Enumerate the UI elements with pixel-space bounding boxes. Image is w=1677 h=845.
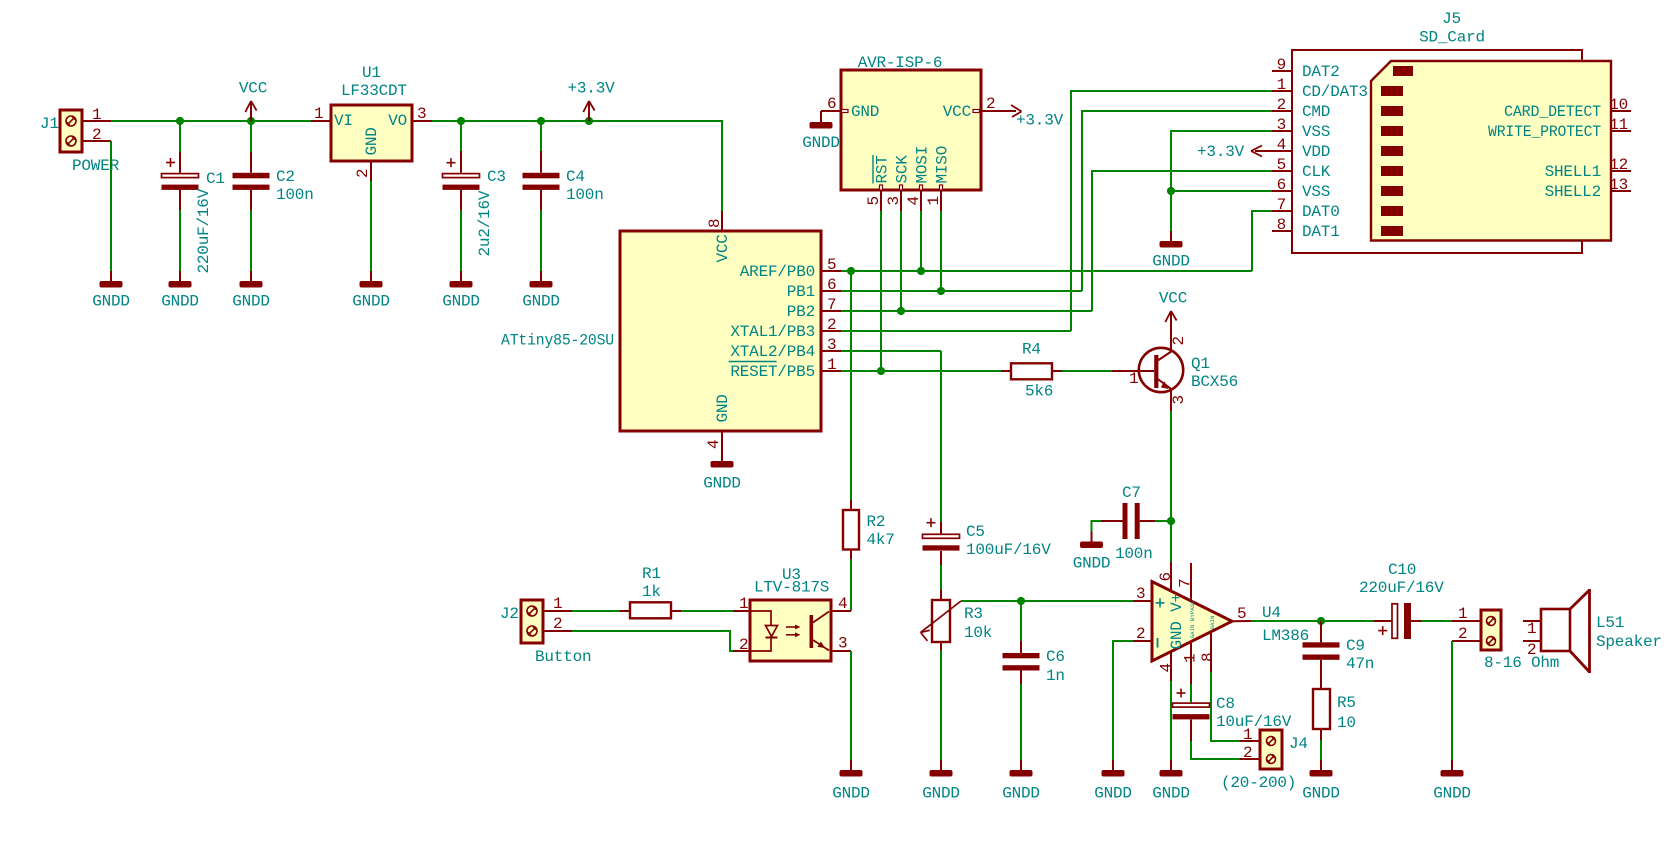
pin 2 XTAL1/PB3 of ATtiny: [730, 316, 841, 341]
svg-text:CMD: CMD: [1302, 103, 1330, 121]
svg-text:XTAL1/PB3: XTAL1/PB3: [730, 323, 815, 341]
wire U1 GND to ground: [370, 181, 372, 271]
svg-text:GND: GND: [363, 127, 381, 155]
svg-text:2: 2: [1458, 625, 1467, 643]
svg-text:GND: GND: [714, 394, 732, 422]
svg-text:GNDD: GNDD: [1073, 555, 1111, 573]
ground GNDD at U3: [832, 760, 870, 803]
svg-text:GNDD: GNDD: [232, 293, 270, 311]
svg-text:GNDD: GNDD: [802, 134, 840, 152]
ground GNDD at U4 pin4: [1152, 760, 1190, 803]
svg-text:7: 7: [1177, 579, 1195, 588]
svg-text:DAT2: DAT2: [1302, 63, 1340, 81]
svg-text:J5: J5: [1442, 10, 1461, 28]
pin 2 of J1: [82, 126, 111, 144]
MCU U2 ATtiny85-20SU: [501, 231, 821, 431]
capacitor C1 220uF/16V: [162, 121, 225, 274]
svg-text:GAIN BYPASS: GAIN BYPASS: [1189, 600, 1196, 639]
pin 1 CD/DAT3 of SD card: [1272, 76, 1368, 101]
junction output/C9: [1317, 617, 1325, 625]
pin 7 DAT0 of SD card: [1272, 196, 1340, 221]
svg-text:2: 2: [986, 95, 995, 113]
svg-text:1: 1: [739, 595, 748, 613]
svg-text:R2: R2: [867, 513, 886, 531]
svg-text:CARD_DETECT: CARD_DETECT: [1504, 103, 1601, 121]
wire SD VSS pin3 to ground: [1171, 131, 1272, 191]
svg-text:AVR-ISP-6: AVR-ISP-6: [858, 54, 943, 72]
pin 3 of U3: [831, 635, 851, 653]
svg-text:1: 1: [1277, 76, 1286, 94]
svg-text:3: 3: [827, 336, 836, 354]
junction +3.3V rail at +3.3V symbol: [585, 117, 593, 125]
svg-text:SHELL2: SHELL2: [1545, 183, 1601, 201]
svg-text:100n: 100n: [276, 186, 314, 204]
svg-text:2: 2: [739, 636, 748, 654]
svg-text:2: 2: [1243, 744, 1252, 762]
capacitor C10 220uF/16V: [1359, 561, 1444, 639]
pin 2 CMD of SD card: [1272, 96, 1330, 121]
svg-text:R1: R1: [642, 565, 661, 583]
wire C10 to speaker connector: [1421, 620, 1452, 622]
svg-text:LF33CDT: LF33CDT: [341, 82, 407, 100]
svg-text:RST: RST: [874, 155, 892, 183]
svg-text:Speaker: Speaker: [1596, 633, 1662, 651]
wire C4 to ground: [540, 210, 542, 271]
ground GNDD at ATtiny: [703, 451, 741, 493]
wire C2 to ground: [250, 210, 252, 271]
junction PB1/MISO: [937, 287, 945, 295]
svg-text:VSS: VSS: [1302, 123, 1330, 141]
pin 6 GND of ISP: [821, 95, 879, 121]
op-amp U4 LM386: [1152, 582, 1309, 662]
wire R5 to ground: [1320, 740, 1322, 760]
svg-text:PB1: PB1: [787, 283, 815, 301]
svg-text:L51: L51: [1596, 614, 1624, 632]
power symbol VCC: [239, 80, 267, 122]
svg-text:VO: VO: [388, 112, 407, 130]
svg-text:GND: GND: [851, 103, 879, 121]
junction PB2/SCK: [897, 307, 905, 315]
svg-text:GNDD: GNDD: [1433, 785, 1471, 803]
pin 5 output of U4: [1232, 605, 1251, 623]
pin 4 GND of ATtiny: [705, 431, 723, 451]
svg-text:+3.3V: +3.3V: [567, 80, 615, 98]
junction at C6: [1017, 597, 1025, 605]
wire R4 to Q1 base: [1062, 370, 1112, 372]
svg-text:POWER: POWER: [72, 157, 120, 175]
wire Q1 emitter to amp V+: [1170, 411, 1172, 521]
junction VCC rail at C1: [176, 117, 184, 125]
svg-text:MOSI: MOSI: [914, 146, 932, 184]
ground GNDD at C2: [232, 271, 270, 311]
label POWER: [72, 157, 120, 175]
pin 4 VDD of SD card: [1272, 136, 1330, 161]
svg-text:Q1: Q1: [1191, 355, 1210, 373]
svg-text:2: 2: [354, 169, 372, 178]
junction VSS: [1167, 187, 1175, 195]
capacitor C9 47n: [1303, 621, 1375, 689]
svg-text:MISO: MISO: [934, 146, 952, 184]
svg-text:VSS: VSS: [1302, 183, 1330, 201]
svg-text:1: 1: [1243, 726, 1252, 744]
connector J1 POWER: [60, 110, 82, 152]
svg-text:DAT0: DAT0: [1302, 203, 1340, 221]
svg-text:C1: C1: [206, 170, 225, 188]
pin 1 RESET/PB5 of ATtiny: [729, 356, 841, 381]
wire PB0 net: [841, 270, 1252, 272]
svg-text:6: 6: [827, 95, 836, 113]
svg-text:VI: VI: [334, 112, 353, 130]
wire XTAL1/PB3 to SD CD/DAT3: [1071, 91, 1272, 331]
svg-text:4: 4: [705, 440, 723, 449]
svg-text:R5: R5: [1337, 694, 1356, 712]
pin 3 SCK of ISP: [885, 155, 912, 211]
pin 10 CARD_DETECT of SD card: [1504, 96, 1631, 121]
optocoupler U3 LTV-817S: [750, 566, 831, 661]
wire VCC rail J1 to U1: [111, 120, 311, 122]
svg-text:100n: 100n: [566, 186, 604, 204]
svg-text:3: 3: [1277, 116, 1286, 134]
wire R3 to ground: [940, 650, 942, 760]
svg-text:4: 4: [1158, 663, 1176, 672]
resistor R5 10: [1313, 689, 1356, 740]
pin 7 BYPASS of U4: [1177, 563, 1195, 602]
pin 2 of J3: [1452, 625, 1481, 643]
svg-text:7: 7: [1277, 196, 1286, 214]
svg-text:C10: C10: [1388, 561, 1416, 579]
svg-text:1: 1: [1129, 370, 1138, 388]
wire R3 wiper to amp input: [961, 600, 1133, 602]
svg-text:10k: 10k: [964, 624, 992, 642]
capacitor C7 100n: [1101, 484, 1155, 563]
power symbol VCC at Q1: [1159, 290, 1187, 332]
pin 6 VSS of SD card: [1272, 176, 1330, 201]
svg-text:R3: R3: [964, 605, 983, 623]
pin 5 CLK of SD card: [1272, 156, 1331, 181]
power symbol +3.3V at SD VDD: [1197, 143, 1272, 161]
pin 2 of J4: [1240, 744, 1260, 762]
svg-text:1: 1: [314, 105, 323, 123]
pin 8 VCC of ATtiny: [706, 211, 724, 231]
svg-text:C5: C5: [966, 523, 985, 541]
pin 4 GND of U4: [1158, 651, 1176, 681]
pin 2 of U3: [733, 636, 750, 654]
ground GNDD at R5: [1302, 760, 1340, 803]
svg-text:LTV-817S: LTV-817S: [754, 579, 829, 597]
svg-text:1: 1: [553, 595, 562, 613]
svg-text:10: 10: [1337, 714, 1356, 732]
svg-text:C3: C3: [487, 168, 506, 186]
svg-text:1: 1: [1527, 620, 1536, 638]
svg-text:220uF/16V: 220uF/16V: [195, 188, 213, 273]
capacitor C2 100n: [233, 121, 314, 210]
junction PB0/R2: [847, 267, 855, 275]
svg-text:2: 2: [1170, 336, 1188, 345]
svg-text:GNDD: GNDD: [161, 293, 199, 311]
label SD_Card: [1419, 29, 1485, 47]
potentiometer R3 10k: [921, 590, 993, 650]
label (20-200): [1221, 774, 1296, 792]
svg-text:C6: C6: [1046, 648, 1065, 666]
label J5: [1442, 10, 1461, 28]
svg-text:2: 2: [827, 316, 836, 334]
pin 3 + input of U4: [1133, 585, 1152, 603]
wire U4 output: [1251, 620, 1321, 622]
svg-text:1: 1: [925, 196, 943, 205]
svg-text:GNDD: GNDD: [1152, 785, 1190, 803]
svg-text:J2: J2: [500, 605, 519, 623]
ground GNDD at SD VSS: [1152, 231, 1190, 271]
pin 4 of U3: [831, 595, 851, 613]
pin 3 VSS of SD card: [1272, 116, 1330, 141]
svg-text:R4: R4: [1022, 341, 1041, 359]
wire PB0 down to R2: [850, 271, 852, 500]
svg-text:C7: C7: [1122, 484, 1141, 502]
svg-text:CD/DAT3: CD/DAT3: [1302, 83, 1368, 101]
pin 4 MOSI of ISP: [905, 146, 932, 211]
capacitor C5 100uF/16V: [923, 518, 1052, 565]
svg-text:SHELL1: SHELL1: [1545, 163, 1601, 181]
svg-text:1: 1: [827, 356, 836, 374]
wire C1 to ground: [179, 210, 181, 271]
svg-text:5: 5: [1277, 156, 1286, 174]
svg-text:GNDD: GNDD: [92, 293, 130, 311]
svg-text:(20-200): (20-200): [1221, 774, 1296, 792]
svg-text:GNDD: GNDD: [832, 785, 870, 803]
svg-text:U4: U4: [1262, 604, 1281, 622]
pin 5 RST of ISP: [865, 155, 892, 211]
svg-text:220uF/16V: 220uF/16V: [1359, 579, 1444, 597]
wire ATtiny GND to ground: [721, 451, 723, 461]
svg-text:4k7: 4k7: [867, 531, 895, 549]
ground GNDD at U1: [352, 271, 390, 311]
svg-text:7: 7: [827, 296, 836, 314]
pin 3 VO of U1: [412, 105, 432, 123]
wire C7 to V+ net: [1155, 520, 1171, 522]
ground GNDD at C1: [161, 271, 199, 311]
svg-text:J4: J4: [1289, 735, 1308, 753]
svg-text:AREF/PB0: AREF/PB0: [740, 263, 815, 281]
wire U4 pin1 to C8: [1190, 684, 1192, 702]
svg-text:2: 2: [1527, 641, 1536, 659]
svg-text:10: 10: [1609, 96, 1628, 114]
svg-text:4: 4: [838, 595, 847, 613]
connector J2 Button: [521, 600, 543, 643]
wire SD VSS pin6 to ground: [1171, 190, 1272, 192]
svg-text:12: 12: [1609, 156, 1628, 174]
ground GNDD at C3: [442, 271, 480, 311]
ground GNDD at R3: [922, 760, 960, 803]
svg-text:2u2/16V: 2u2/16V: [476, 190, 494, 256]
power symbol +3.3V at ISP VCC: [1001, 105, 1064, 130]
wire RESET/PB5 net to R4: [841, 370, 1001, 372]
wire PB0 to SD DAT0: [1252, 211, 1272, 271]
pin 9 DAT2 of SD card: [1272, 56, 1340, 81]
svg-text:100uF/16V: 100uF/16V: [966, 541, 1051, 559]
svg-text:PB2: PB2: [787, 303, 815, 321]
svg-text:GNDD: GNDD: [1152, 253, 1190, 271]
svg-text:10uF/16V: 10uF/16V: [1216, 713, 1292, 731]
pin 6 PB1 of ATtiny: [787, 276, 841, 301]
svg-text:GNDD: GNDD: [442, 293, 480, 311]
svg-text:11: 11: [1609, 116, 1628, 134]
junction PB0/MOSI: [917, 267, 925, 275]
svg-text:C9: C9: [1346, 637, 1365, 655]
svg-text:RESET/PB5: RESET/PB5: [730, 363, 815, 381]
svg-text:47n: 47n: [1346, 655, 1374, 673]
junction VCC rail at C2: [247, 117, 255, 125]
svg-text:LM386: LM386: [1262, 627, 1309, 645]
label J4: [1289, 735, 1308, 753]
svg-text:C2: C2: [276, 168, 295, 186]
svg-text:BCX56: BCX56: [1191, 373, 1238, 391]
wire XTAL2/PB4 net: [841, 350, 941, 352]
svg-text:C8: C8: [1216, 695, 1235, 713]
svg-text:CLK: CLK: [1302, 163, 1331, 181]
svg-text:1n: 1n: [1046, 667, 1065, 685]
svg-text:6: 6: [1277, 176, 1286, 194]
svg-text:Button: Button: [535, 648, 591, 666]
svg-text:6: 6: [827, 276, 836, 294]
svg-text:2: 2: [92, 126, 101, 144]
pin 1 MISO of ISP: [925, 146, 952, 211]
pin 1 of J4: [1240, 726, 1260, 744]
svg-text:8: 8: [706, 219, 724, 228]
pin 7 PB2 of ATtiny: [787, 296, 841, 321]
svg-text:VDD: VDD: [1302, 143, 1330, 161]
pin 1 of J2: [543, 595, 572, 613]
svg-text:SD_Card: SD_Card: [1419, 29, 1485, 47]
svg-text:J1: J1: [40, 115, 59, 133]
svg-text:VCC: VCC: [714, 234, 732, 262]
svg-text:GNDD: GNDD: [352, 293, 390, 311]
svg-text:DAT1: DAT1: [1302, 223, 1340, 241]
svg-text:GNDD: GNDD: [1302, 785, 1340, 803]
pin 2 of J2: [543, 615, 572, 633]
ground GNDD at speaker: [1433, 760, 1471, 803]
svg-text:8: 8: [1277, 216, 1286, 234]
pin 6 V+ of U4: [1157, 562, 1175, 592]
svg-text:4: 4: [905, 196, 923, 205]
svg-text:WRITE_PROTECT: WRITE_PROTECT: [1488, 123, 1601, 141]
svg-text:XTAL2/PB4: XTAL2/PB4: [730, 343, 815, 361]
junction V+/C7: [1167, 517, 1175, 525]
connector J4 (20-200): [1260, 730, 1282, 769]
pin 12 SHELL1 of SD card: [1545, 156, 1631, 181]
ground GNDD at C6: [1002, 760, 1040, 803]
resistor R4 5k6: [1001, 341, 1062, 401]
svg-text:3: 3: [1136, 585, 1145, 603]
svg-text:1: 1: [92, 106, 101, 124]
svg-text:ATtiny85-20SU: ATtiny85-20SU: [501, 332, 614, 350]
svg-text:5: 5: [1237, 605, 1246, 623]
pin 13 SHELL2 of SD card: [1545, 176, 1631, 201]
pin 8 DAT1 of SD card: [1272, 216, 1340, 241]
label J2: [500, 605, 519, 623]
svg-text:8-16 Ohm: 8-16 Ohm: [1484, 654, 1559, 672]
svg-text:GND V+: GND V+: [1168, 593, 1186, 649]
pin 5 AREF/PB0 of ATtiny: [740, 256, 841, 281]
capacitor C4 100n: [523, 121, 604, 210]
svg-text:2: 2: [1277, 96, 1286, 114]
speaker L51: [1541, 589, 1662, 673]
svg-text:1k: 1k: [642, 583, 661, 601]
wire J2 pin2 to U3 pin2: [572, 631, 733, 651]
svg-text:3: 3: [1170, 395, 1188, 404]
svg-text:+3.3V: +3.3V: [1016, 112, 1064, 130]
wire RST to RESET/PB5: [880, 211, 882, 371]
svg-text:4: 4: [1277, 136, 1286, 154]
wire output to C10: [1321, 620, 1374, 622]
wire PB2 net: [841, 310, 1092, 312]
wire C8 to J4 pin2: [1191, 741, 1240, 759]
power symbol +3.3V: [567, 80, 615, 122]
wire VSS down: [1170, 191, 1172, 231]
wire J3 pin2 to ground: [1451, 641, 1453, 760]
wire R1 to U3 pin1: [681, 610, 733, 612]
ground GNDD at C4: [522, 271, 560, 311]
wire SCK to PB2: [900, 211, 902, 311]
svg-text:VCC: VCC: [1159, 290, 1187, 308]
pin 8 GAIN of U4: [1199, 632, 1217, 673]
regulator U1 LF33CDT: [331, 64, 412, 161]
wire +3.3V rail U1 VO to ATtiny VCC: [432, 121, 722, 211]
junction RESET/RST: [877, 367, 885, 375]
svg-text:1: 1: [1182, 654, 1200, 663]
svg-text:8: 8: [1199, 653, 1217, 662]
pin 3 XTAL2/PB4 of ATtiny: [730, 336, 841, 361]
wire PB1 net: [841, 290, 1082, 292]
svg-text:9: 9: [1277, 56, 1286, 74]
label J1: [40, 115, 59, 133]
wire PB2 to SD CLK: [1092, 171, 1272, 311]
wire R2 to U3 pin4: [850, 559, 852, 611]
svg-text:SCK: SCK: [894, 155, 912, 184]
pin 1 of J3: [1452, 605, 1481, 623]
wire U4 GND to ground: [1170, 681, 1172, 760]
svg-text:13: 13: [1609, 176, 1628, 194]
svg-text:1: 1: [1458, 605, 1467, 623]
pin 2 VCC of ISP: [943, 95, 1001, 121]
svg-text:2: 2: [553, 615, 562, 633]
capacitor C6 1n: [1003, 601, 1065, 685]
pin 1 of L51: [1523, 620, 1541, 638]
wire U4 pin8 to J4 pin1: [1211, 672, 1240, 741]
capacitor C8 10uF/16V: [1173, 689, 1292, 742]
ground GNDD at J1: [92, 271, 130, 311]
wire C3 to ground: [460, 210, 462, 271]
wire MISO to PB1: [940, 211, 942, 291]
ground GNDD at C7: [1073, 532, 1111, 573]
svg-text:3: 3: [885, 196, 903, 205]
pin 2 - input of U4: [1133, 625, 1152, 643]
connector J5 SD_Card: [1292, 50, 1611, 253]
svg-text:3: 3: [417, 105, 426, 123]
resistor R2 4k7: [843, 500, 895, 559]
pin 1 VI of U1: [311, 105, 331, 123]
wire C5 to R3: [940, 565, 942, 590]
svg-text:GNDD: GNDD: [522, 293, 560, 311]
capacitor C3 2u2/16V: [443, 121, 506, 257]
svg-text:2: 2: [1136, 625, 1145, 643]
pin 11 WRITE_PROTECT of SD card: [1488, 116, 1631, 141]
wire C6 to ground: [1020, 684, 1022, 760]
transistor Q1 BCX56: [1112, 331, 1238, 411]
svg-text:C4: C4: [566, 168, 585, 186]
wire U3 pin3 to ground: [850, 651, 852, 760]
svg-text:GAIN: GAIN: [1209, 615, 1216, 629]
svg-text:VCC: VCC: [943, 103, 971, 121]
